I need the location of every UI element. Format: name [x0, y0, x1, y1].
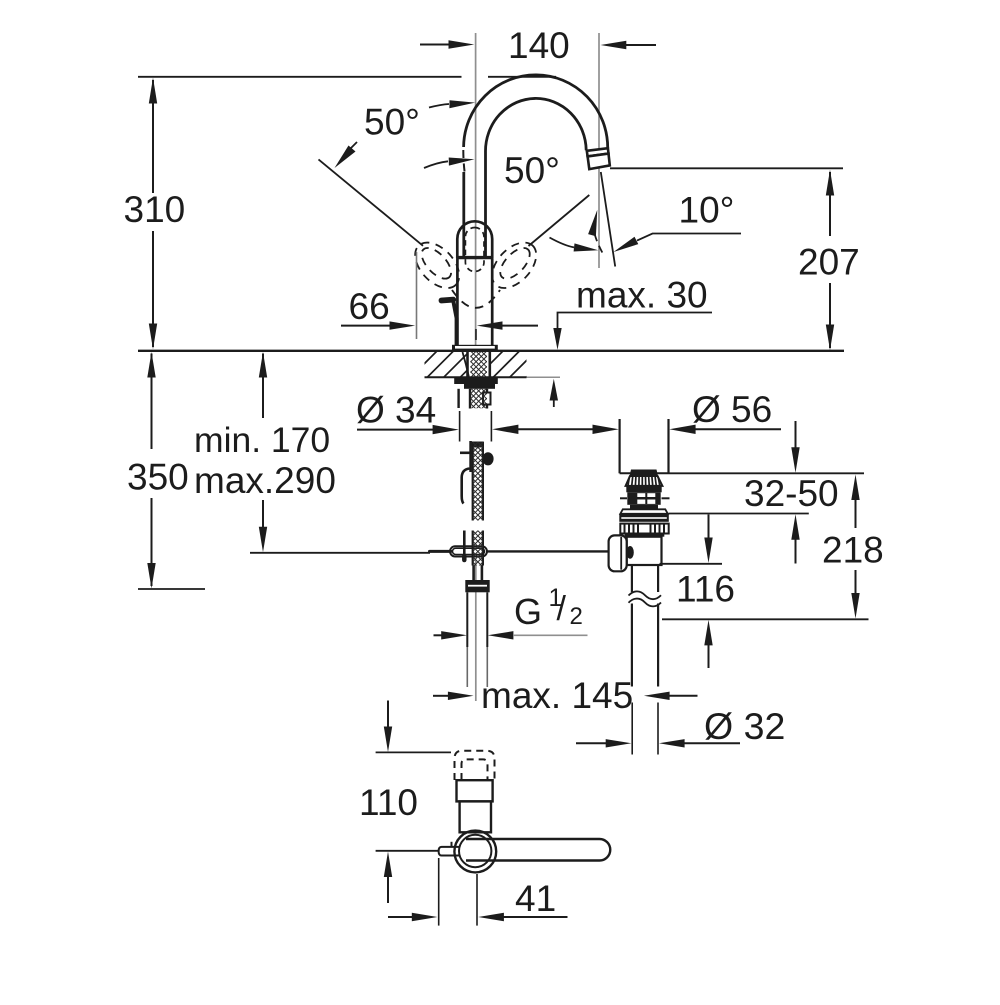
countertop hatching	[410, 350, 554, 378]
centerline faucet vertical (140 left extension)	[475, 33, 477, 345]
drain standpipe	[620, 419, 669, 473]
reference line spout outlet right	[610, 167, 843, 169]
spout column left edge	[463, 150, 464, 258]
dimension dia 32	[576, 703, 785, 755]
reference line popup top	[669, 472, 865, 474]
locknut	[454, 378, 498, 389]
svg-text:50°: 50°	[364, 102, 420, 143]
G half connector nut	[465, 566, 489, 593]
supply hose upper	[472, 442, 484, 521]
svg-text:116: 116	[676, 569, 735, 610]
spout gooseneck outer curve	[464, 75, 608, 149]
dimension 66	[341, 252, 538, 340]
threaded shank in countertop	[463, 351, 490, 377]
dimension min 170 max 290	[194, 352, 430, 553]
label G 1/2	[434, 584, 588, 640]
countertop top line	[138, 350, 844, 352]
svg-text:10°: 10°	[679, 190, 735, 231]
plan view base circles	[454, 831, 496, 873]
plan view body	[460, 801, 491, 832]
shank below locknut	[459, 389, 491, 409]
plan view lever	[466, 839, 610, 861]
svg-text:max.290: max.290	[194, 460, 336, 501]
dimension 140	[420, 25, 656, 66]
supply tube	[467, 592, 487, 687]
reference line top of spout	[138, 76, 556, 78]
dimension 116	[660, 515, 736, 669]
pop-up rod knob	[438, 297, 456, 345]
drain tailpipe	[629, 565, 662, 687]
svg-text:32-50: 32-50	[744, 473, 839, 514]
horizontal pop-up actuating rod	[430, 546, 610, 556]
swivel limit line right 50 deg	[529, 195, 590, 246]
hose side knob	[482, 452, 493, 465]
countertop bottom line	[425, 376, 561, 378]
svg-text:310: 310	[124, 189, 186, 230]
dashed arc under body	[452, 290, 500, 308]
supply hose lower	[473, 531, 483, 566]
pop-up rod vertical	[460, 441, 472, 560]
water stream 10 deg line	[601, 172, 615, 267]
dimension max 145	[433, 675, 698, 716]
svg-text:max. 145: max. 145	[481, 675, 633, 716]
swivel limit line left 50 deg	[319, 159, 424, 245]
dimension 207	[798, 170, 860, 350]
svg-text:350: 350	[127, 457, 189, 498]
svg-text:/: /	[557, 590, 567, 628]
dimension dia 56	[669, 389, 781, 434]
svg-text:41: 41	[515, 878, 556, 919]
pop-up waste assembly	[619, 470, 669, 566]
handle lever dashed right position	[484, 234, 545, 296]
dimension 310	[124, 78, 186, 349]
label 50 deg left	[335, 102, 420, 169]
label max 30	[550, 275, 712, 408]
dimension 41	[388, 858, 568, 926]
spout column right edge	[484, 152, 487, 258]
angle arc right with arrow	[550, 238, 599, 252]
aerator tip	[587, 148, 610, 169]
svg-text:Ø 34: Ø 34	[356, 390, 436, 431]
swivel arrow upper	[429, 100, 475, 108]
plan view dashed knob	[455, 751, 495, 780]
svg-text:218: 218	[822, 530, 884, 571]
handle dashed cartridge outline	[465, 228, 484, 272]
svg-text:Ø 32: Ø 32	[704, 705, 785, 747]
svg-text:max. 30: max. 30	[576, 275, 708, 316]
centerline supply tube	[475, 560, 477, 701]
svg-text:207: 207	[798, 242, 860, 283]
svg-text:min. 170: min. 170	[194, 420, 330, 460]
svg-text:Ø 56: Ø 56	[692, 389, 772, 430]
base flange	[452, 345, 498, 351]
angle arc dashed with arrow	[588, 210, 602, 253]
handle lever dashed left position	[407, 234, 468, 296]
svg-text:110: 110	[359, 782, 418, 823]
svg-text:140: 140	[508, 25, 570, 66]
dimension dia 34	[356, 390, 619, 442]
label 10 deg	[614, 190, 742, 253]
label 50 deg right	[504, 150, 560, 191]
svg-text:2: 2	[570, 603, 583, 630]
dimension 350	[127, 352, 205, 589]
svg-text:G: G	[514, 591, 542, 632]
swivel arrow lower	[424, 158, 475, 169]
faucet body sides	[457, 259, 492, 346]
svg-text:50°: 50°	[504, 150, 560, 191]
svg-text:66: 66	[349, 286, 390, 327]
crosshatch textures	[470, 335, 487, 572]
spout gooseneck inner curve	[485, 98, 586, 152]
dimension 110	[359, 701, 451, 904]
plan view pop-up tab	[439, 842, 460, 856]
plan view cap	[457, 780, 493, 801]
handle dome	[456, 221, 493, 258]
centerline spout outlet (140 right extension / stream reference)	[598, 33, 600, 268]
dimension 218	[662, 475, 884, 620]
pop-up clevis	[609, 535, 634, 571]
dimension 32-50	[669, 421, 839, 564]
